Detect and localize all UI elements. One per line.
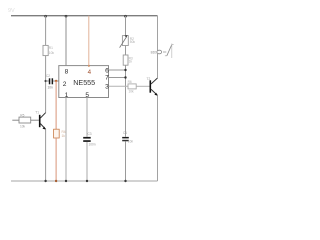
svg-text:NE555: NE555 (73, 78, 95, 87)
wire: pin 4 to top rail (orange) (88, 16, 90, 66)
node: junction C1 / left branch (45, 80, 47, 82)
wire: pin 5 down to C2 (86, 98, 88, 137)
wire: C3 to ground (125, 142, 127, 182)
wire: right rail top (rail to buzzer) (157, 16, 159, 51)
wire: left stub to R5 (12, 119, 19, 121)
svg-text:1: 1 (65, 92, 69, 99)
svg-text:9V: 9V (8, 8, 15, 14)
svg-text:8: 8 (65, 68, 69, 75)
wire: R5 to Q1 base (31, 119, 39, 121)
wire: +V top rail (11, 15, 158, 17)
node: junction Q1 emitter / ground rail (44, 180, 46, 182)
wire: ground bottom rail (11, 180, 158, 182)
svg-text:1k: 1k (62, 134, 66, 138)
wire: R4 to ground rail (orange) (55, 138, 57, 181)
node: junction pin5 branch / ground rail (86, 180, 88, 182)
wire: R2 to R3 (125, 46, 127, 56)
svg-text:10n: 10n (128, 139, 134, 143)
resistor R4 (orange highlighted) (54, 129, 60, 138)
svg-text:10k: 10k (129, 90, 135, 94)
svg-text:C2: C2 (46, 74, 50, 78)
node: orange junction pin2 net (55, 80, 57, 82)
svg-text:6: 6 (105, 67, 109, 74)
capacitor C1 (46, 80, 49, 82)
node: pin 4 connection dot (88, 65, 90, 67)
wire: Q2 emitter to ground rail (157, 95, 159, 181)
node: junction top rail / R2 branch (124, 15, 127, 18)
wire: pin 3 to R6 (109, 85, 129, 87)
wire: C2 to ground (86, 142, 88, 181)
svg-text:R1: R1 (49, 46, 53, 50)
potentiometer R2 (122, 36, 128, 46)
wire: R3 down through pins 6,7 to C3 (125, 65, 127, 137)
svg-text:R5: R5 (20, 114, 24, 118)
capacitor C3 (122, 137, 129, 139)
wire: pin 1 to ground (65, 98, 67, 182)
svg-text:BD1: BD1 (151, 51, 157, 55)
wire: left branch top (rail to R1) (45, 16, 47, 46)
wire: Q1 emitter to ground rail (45, 129, 47, 181)
svg-text:R6: R6 (128, 80, 132, 84)
resistor R1 (43, 45, 48, 55)
svg-text:10n: 10n (48, 86, 54, 90)
IC U1 NE555 timer body (59, 66, 109, 98)
svg-text:C1: C1 (123, 131, 127, 135)
resistor R6 (128, 84, 136, 89)
node: junction pin 6 (124, 69, 126, 71)
node: junction C3 branch / ground (124, 180, 126, 182)
wire: pin 7 to vertical (109, 77, 126, 79)
svg-text:T1: T1 (35, 111, 39, 115)
svg-text:1k: 1k (129, 60, 133, 64)
svg-text:7: 7 (105, 75, 109, 82)
wire: pin 8 to top rail (65, 16, 67, 66)
svg-text:4: 4 (88, 69, 92, 76)
wire: R1 to C1 junction down to Q1 (45, 56, 47, 113)
resistor R5 (19, 117, 31, 123)
resistor R3 (123, 55, 128, 65)
svg-text:3: 3 (105, 84, 109, 91)
wire: buzzer to Q2 collector (157, 54, 159, 78)
capacitor C2 (83, 137, 91, 139)
wire: orange vertical pin2 to R4 (55, 81, 57, 129)
svg-text:100n: 100n (89, 143, 96, 147)
node: junction top rail / R1 branch (44, 15, 47, 18)
node: junction pin1 / ground rail (65, 180, 67, 182)
wire: C1 to pin 2 (53, 80, 59, 82)
svg-text:10k: 10k (20, 125, 26, 129)
svg-text:2: 2 (63, 81, 67, 88)
svg-text:50k: 50k (130, 40, 136, 44)
wire: pin 6 to vertical (109, 69, 126, 71)
svg-text:C3: C3 (88, 132, 92, 136)
node: junction R4 / ground rail (55, 180, 57, 182)
node: junction pin 7 (124, 76, 126, 78)
node: junction top rail / pin 8 (65, 15, 68, 18)
wire: top rail to R2 pot (125, 16, 127, 36)
svg-text:10k: 10k (49, 51, 55, 55)
wire: R6 to Q2 base (136, 85, 149, 87)
